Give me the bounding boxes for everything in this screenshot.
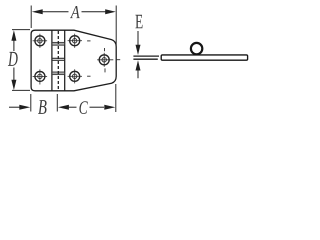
- dim C arrow right: [104, 105, 115, 110]
- label C: [79, 101, 87, 114]
- dim A arrow left: [32, 9, 69, 14]
- dim C line left: [69, 106, 77, 108]
- label A: [70, 6, 80, 18]
- dim D extension top: [12, 29, 30, 31]
- side view left leaf (edge-on, two lines): [133, 56, 159, 59]
- dim B/C shared arrow (points left): [58, 105, 69, 110]
- dim A arrow right: [82, 9, 116, 14]
- dim B extension left: [30, 94, 32, 112]
- dim D extension bottom: [12, 89, 30, 91]
- dim C line right: [90, 106, 105, 108]
- dim A extension left: [30, 6, 32, 29]
- barrel right edge: [64, 30, 66, 91]
- dim B arrow left (outside): [9, 105, 30, 110]
- shared extension B/C: [56, 94, 58, 112]
- screw hole bottom-left: [33, 69, 48, 84]
- label B: [38, 100, 47, 114]
- dim A extension right: [115, 6, 117, 46]
- hinge front view outline: [31, 30, 116, 91]
- dim E arrow up: [136, 60, 141, 78]
- label E: [135, 15, 142, 28]
- screw hole bottom-mid: [68, 69, 91, 83]
- pin dashed centerline: [57, 31, 59, 90]
- dim D arrow down: [11, 68, 16, 91]
- screw hole top-mid: [68, 34, 91, 48]
- knuckle middle joint lines: [52, 58, 65, 60]
- label D: [8, 52, 18, 66]
- side view right leaf (bar): [161, 55, 247, 60]
- side view knuckle loop: [191, 43, 202, 54]
- screw hole right: [97, 48, 120, 72]
- screw hole top-left: [33, 34, 48, 48]
- knuckle gap band lower: [52, 72, 65, 75]
- dim E arrow down: [136, 31, 141, 55]
- knuckle gap band upper: [52, 42, 65, 45]
- dim D arrow up: [11, 30, 16, 51]
- barrel left edge: [51, 30, 53, 91]
- dim C extension right: [115, 84, 117, 112]
